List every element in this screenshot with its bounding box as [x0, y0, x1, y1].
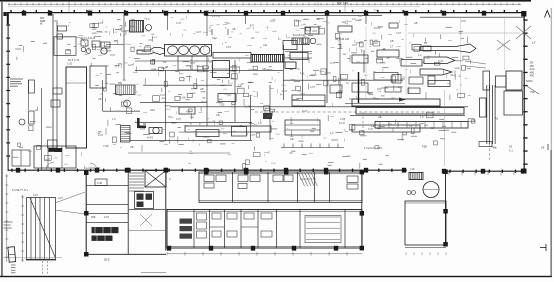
press connector box [496, 76, 507, 87]
svg-text:1.6: 1.6 [300, 71, 304, 75]
upper room 3 desks [273, 175, 293, 182]
left rooms divider [20, 150, 22, 166]
svg-text:AB: AB [118, 27, 122, 31]
svg-text:1.6: 1.6 [368, 91, 372, 95]
scattered small labels [98, 17, 444, 149]
conveyor label flags [211, 29, 213, 35]
left shelf box2 [29, 111, 35, 124]
box row upper right d3 [409, 77, 423, 84]
svg-text:4.07: 4.07 [176, 117, 182, 121]
svg-text:A5: A5 [495, 118, 499, 121]
svg-text:( 26: ( 26 [410, 167, 415, 171]
lower row table grid [305, 216, 341, 243]
machine circle a [81, 47, 86, 52]
svg-text:0.47: 0.47 [438, 59, 444, 63]
svg-text:2.7: 2.7 [390, 47, 394, 49]
svg-text:1.6: 1.6 [250, 23, 254, 27]
svg-text:1.6: 1.6 [150, 49, 154, 53]
strip bottom wall [86, 253, 166, 255]
machine box m5 [232, 127, 247, 137]
room wall vert x102 [102, 80, 104, 111]
svg-text:F.V.SE.TY N.1: F.V.SE.TY N.1 [12, 189, 28, 192]
taper conveyor 2 [424, 57, 455, 64]
scan border bottom edge [0, 276, 552, 277]
lower row dividers [194, 210, 345, 249]
circle right of ladder box [146, 25, 152, 31]
machine box m4 [196, 130, 219, 137]
feeder line down [339, 37, 341, 99]
right wing room [405, 201, 446, 245]
long machine bar B [356, 108, 464, 115]
small text column below north box [11, 265, 16, 273]
svg-text:0.47: 0.47 [330, 61, 336, 65]
grid horizontal y140 [130, 139, 252, 141]
top leader line b [344, 2, 346, 13]
dark corner mark left [137, 118, 140, 128]
top wall stub x167 [167, 15, 169, 30]
cluster vertical feed b [302, 38, 304, 100]
mid machine bar E [185, 126, 271, 132]
long machine bar D [352, 125, 420, 132]
svg-text:MX5: MX5 [88, 10, 93, 12]
svg-text:500/0: 500/0 [526, 79, 533, 83]
lower row outline [167, 210, 362, 249]
grid vertical x165 [165, 70, 167, 141]
svg-text:1.6: 1.6 [352, 17, 356, 21]
margin diagonal leader [525, 85, 539, 94]
east wall under-ticks [449, 172, 514, 175]
stair ladder treads [129, 173, 144, 191]
stair core wall x165 [165, 172, 167, 251]
upper row divider 3 [297, 172, 299, 202]
machine box m1 [218, 94, 236, 102]
dark hatched ladder box top-left [130, 21, 144, 33]
svg-text:4.07: 4.07 [296, 19, 302, 23]
svg-text:1.6: 1.6 [112, 117, 116, 121]
svg-text:··· ····: ··· ···· [264, 30, 270, 32]
svg-text:AB: AB [200, 87, 204, 91]
svg-text:CaI: CaI [263, 43, 267, 47]
svg-text:· ······ ····· ········: · ······ ····· ········ [73, 274, 95, 278]
stair core column top [164, 168, 169, 173]
press leader lines [465, 61, 486, 64]
grid vertical x250 [250, 95, 252, 140]
ramp dim line [21, 195, 24, 262]
bar 17G [385, 87, 401, 92]
box AB right [408, 88, 420, 94]
upper row inner bottom line [199, 200, 362, 202]
upper row divider 4 [314, 172, 316, 202]
svg-text:1.6: 1.6 [238, 83, 242, 87]
svg-text:AB: AB [378, 115, 382, 119]
right wing hatched unit [409, 172, 423, 179]
svg-text:L7: L7 [532, 41, 536, 45]
svg-text:E.T.C: E.T.C [152, 37, 158, 39]
svg-text:c: c [225, 27, 227, 30]
small box c9 [330, 85, 342, 93]
svg-text:0.27: 0.27 [33, 194, 38, 197]
survey cross 2 [497, 40, 510, 50]
svg-text:AB: AB [493, 146, 497, 150]
stair lower cabinets [135, 192, 154, 209]
cluster vertical feed a [283, 45, 285, 100]
left circle D [19, 119, 25, 125]
grid vertical x235 [234, 60, 236, 122]
svg-text:AB: AB [130, 145, 134, 149]
bottom wall column squares [16, 168, 525, 174]
svg-text:4.07: 4.07 [128, 63, 134, 67]
box row upper right d4 [428, 76, 435, 84]
svg-text:18: 18 [541, 146, 545, 150]
right outer wall [523, 13, 525, 172]
svg-text:d: d [209, 26, 211, 30]
svg-text:AB: AB [390, 39, 394, 43]
room box 54-76 [54, 37, 76, 56]
cluster box c2 [305, 27, 319, 34]
corridor side box b [51, 100, 60, 107]
upper row outline [199, 172, 362, 202]
top wall left corner post [7, 13, 9, 25]
pointer arrow right [399, 98, 406, 102]
upper room 1 desks [204, 175, 226, 188]
dark box 77M [285, 62, 296, 69]
svg-text:0.47: 0.47 [282, 89, 288, 93]
corridor side box a [53, 88, 62, 94]
press tail dashed [489, 144, 491, 161]
svg-text:AB M AB LAP: AB M AB LAP [335, 38, 350, 41]
svg-text:1.6: 1.6 [420, 115, 424, 119]
svg-text:A-43: A-43 [147, 136, 153, 140]
room wall mid-left y111 [103, 110, 141, 112]
svg-text:AB: AB [316, 17, 320, 21]
machine circle b [86, 49, 91, 54]
wing left wall columns [84, 171, 89, 257]
cluster mid box c8 inner [292, 100, 325, 102]
margin tick L bottom [540, 247, 546, 249]
svg-text:4.1A 4.0.1 A.7%: 4.1A 4.0.1 A.7% [300, 178, 316, 181]
small circle pair [407, 191, 411, 195]
press rail pair B [492, 85, 494, 144]
svg-text:0.47: 0.47 [302, 109, 308, 113]
right wing east wall squares [443, 170, 448, 247]
margin label A [545, 11, 551, 18]
top leader line [68, 2, 70, 13]
under-tank room dividers [47, 146, 49, 168]
svg-text:Cap: Cap [212, 36, 217, 40]
right wing dim ticks [406, 253, 446, 256]
svg-text:4.07: 4.07 [98, 133, 104, 137]
top wall stub x207 [206, 15, 208, 36]
svg-text:2.07: 2.07 [104, 215, 110, 219]
scan border right edge [551, 150, 552, 277]
svg-text:W.: W. [40, 23, 43, 26]
svg-text:7.02: 7.02 [219, 103, 225, 107]
faint column line x406 [405, 16, 407, 95]
main top wall [7, 12, 526, 14]
conveyor feed flask [137, 48, 165, 55]
machine feed line [106, 44, 124, 46]
strip wall x128 column top [126, 168, 131, 173]
svg-text:450: 450 [530, 74, 535, 78]
svg-text:···· ·····: ···· ····· [264, 27, 271, 29]
svg-text:4.07: 4.07 [250, 133, 256, 137]
wing dimension line below [167, 252, 362, 255]
machine box m2 [179, 107, 195, 114]
door arc bottom wall b [90, 163, 97, 170]
upper right room marks [347, 176, 358, 183]
svg-text:0.47: 0.47 [270, 19, 276, 23]
long machinery rail dashed [255, 111, 440, 113]
circle 12 [124, 100, 131, 107]
machine circle c [101, 48, 107, 54]
left rooms near wall [12, 150, 30, 166]
cluster box c5 [377, 50, 399, 57]
svg-text:1.6: 1.6 [146, 17, 150, 21]
light machine bar [213, 53, 251, 59]
lower row inner wall line [167, 210, 362, 212]
press left block [483, 71, 490, 90]
svg-text:0.47: 0.47 [378, 25, 384, 29]
margin elevation text stack [530, 61, 535, 78]
long machinery rail lower [350, 115, 465, 117]
small boxes top right cluster [389, 23, 398, 28]
upper row divider 2 [267, 172, 269, 202]
band bottom feet line [281, 144, 344, 148]
scan border top edge [0, 0, 531, 2]
strip small box 438 [95, 179, 107, 186]
T-block machine [213, 61, 230, 78]
svg-text:4.0.1.10: 4.0.1.10 [212, 16, 221, 18]
dark cabinet row 1 [92, 227, 119, 233]
main vertical x327 [326, 13, 328, 103]
hatched box BA [292, 38, 309, 45]
strip wall x128 [127, 172, 129, 255]
long machine bar A [352, 99, 440, 106]
tank inner tick [66, 82, 87, 84]
left wall text block [10, 79, 23, 86]
main bottom wall east segment [443, 170, 524, 172]
svg-text:4.07: 4.07 [340, 117, 346, 121]
upper row divider 5 [329, 172, 331, 202]
right wing tank circle [423, 182, 439, 198]
svg-text:0.47: 0.47 [110, 53, 116, 57]
cluster box c2 inner [309, 27, 311, 34]
left outer wall [7, 13, 9, 171]
box row upper right d2 [392, 75, 401, 84]
faint column line x366 [365, 26, 367, 98]
annotation texture field fine [17, 16, 471, 168]
dark hatched machine bar [251, 55, 284, 63]
svg-text:1.6: 1.6 [330, 131, 334, 135]
hall partition y61 [135, 60, 212, 62]
small box AB [479, 142, 492, 147]
faint column line x504 [504, 16, 506, 70]
lower row inner bottom line [167, 245, 362, 247]
bottom-right corner column [522, 169, 527, 174]
wing right wall squares [360, 170, 364, 175]
grid horizontal y102 [140, 101, 207, 103]
svg-text:4.07: 4.07 [310, 85, 316, 89]
press big right box [504, 91, 523, 115]
svg-text:4.07: 4.07 [352, 43, 358, 47]
top leader line c [317, 2, 319, 6]
svg-text:7.09: 7.09 [103, 144, 109, 148]
lower row wc detail 1 [180, 219, 193, 239]
interior corridor wall pair [52, 14, 54, 152]
svg-text:750: 750 [530, 90, 535, 94]
texture row right top [408, 32, 520, 34]
interior column line x41 [41, 88, 43, 170]
dark shelf bar [49, 148, 63, 152]
svg-text:0.47: 0.47 [368, 127, 374, 131]
wing left wall [85, 172, 87, 255]
under band line y153 [128, 152, 230, 154]
svg-text:1.0.1 · 4.1: 1.0.1 · 4.1 [206, 11, 217, 13]
hall partition y70 [135, 69, 283, 71]
svg-text:68: 68 [143, 122, 147, 126]
top wall inner line right [420, 16, 524, 18]
svg-text:6.0: 6.0 [424, 43, 428, 45]
top dimension line [8, 3, 521, 7]
circle at BA box [310, 38, 316, 44]
svg-text:0.47: 0.47 [176, 21, 182, 25]
door arc at room [76, 37, 86, 47]
faint column line x444 [444, 90, 446, 166]
svg-text:AB: AB [216, 113, 220, 117]
svg-text:1.05: 1.05 [245, 105, 251, 109]
svg-text:d.27: d.27 [58, 197, 63, 200]
taper conveyor 3 [420, 69, 452, 75]
svg-text:··········: ·········· [408, 33, 416, 35]
svg-text:1.04: 1.04 [180, 96, 186, 100]
cluster box c7 [401, 60, 422, 67]
svg-text:C.I: C.I [431, 127, 435, 130]
top wall column squares [22, 11, 486, 16]
machine box m3 [149, 128, 162, 134]
scan border left edge [1, 2, 2, 277]
upper hatched room [299, 173, 318, 186]
cluster box c4 [290, 53, 308, 60]
vertical stub x366 [365, 13, 367, 24]
room block 411 [178, 56, 207, 70]
top wall stub x245 [245, 14, 247, 24]
press side box [480, 98, 487, 117]
right wing room bottom double [405, 246, 446, 248]
grid vertical x270 [269, 85, 271, 140]
door arc bottom wall a [46, 162, 54, 170]
small box 21 [58, 26, 67, 31]
core hatch small [140, 214, 152, 226]
svg-text:AB: AB [98, 97, 102, 101]
lower row partitions small [210, 213, 273, 237]
cluster box c3 [338, 26, 352, 32]
dark label block right [263, 113, 272, 119]
svg-text:208: 208 [91, 215, 96, 219]
left mid shelf boxes [29, 80, 35, 93]
wall stub y51 left [285, 51, 312, 53]
box row upper right d1 [374, 73, 398, 81]
room wall y37 [54, 36, 76, 38]
right wing east wall [445, 172, 447, 247]
svg-text:MX 140: MX 140 [337, 2, 348, 6]
hatched bar tail line [284, 57, 312, 59]
tank circle inner line [423, 189, 439, 191]
top wall left end pilaster [3, 12, 6, 16]
vertical x364 upper [363, 50, 365, 72]
top-right corner column [521, 11, 526, 17]
svg-text:F.a 3 5.01.4/5: F.a 3 5.01.4/5 [84, 166, 100, 170]
ramp structure verticals [27, 198, 56, 260]
svg-text:F28: F28 [422, 145, 427, 149]
corridor side box c [48, 140, 58, 148]
main bottom wall west segment [8, 169, 407, 171]
roller conveyor 545 [165, 45, 212, 57]
svg-text:2.: 2. [169, 177, 172, 181]
annotation texture field [12, 19, 475, 169]
svg-text:20.5: 20.5 [104, 258, 110, 262]
hatched box 650 [116, 85, 136, 95]
taper conveyor 1 [420, 44, 476, 53]
dashed vertical x363 [362, 112, 364, 135]
svg-text:0.47: 0.47 [140, 127, 146, 131]
left margin small text rows [4, 222, 13, 228]
svg-text:B.A AB UG: B.A AB UG [293, 34, 305, 37]
strip rooms dividers [86, 184, 128, 186]
press rail pair A [486, 85, 488, 144]
svg-text:·······: ······· [68, 79, 74, 82]
cluster box c6 [352, 55, 368, 63]
ramp leader lines [55, 192, 85, 203]
small box c10 [352, 83, 368, 92]
svg-text:AB: AB [414, 21, 418, 25]
large tank room 623 [66, 67, 87, 148]
bottom tick marks [141, 272, 166, 274]
scan border right edge upper faint [550, 8, 553, 150]
upper room 2 desks [238, 175, 260, 189]
left margin dim line [5, 174, 8, 262]
interior column line x28 [27, 80, 29, 110]
grid vertical x207 [206, 70, 208, 126]
ramp diagonal [30, 198, 56, 258]
svg-text:17G: 17G [377, 89, 382, 91]
right wall survey cross [516, 26, 531, 39]
grid horizontal y122 [135, 121, 252, 123]
centre room labels [143, 65, 251, 140]
cluster mid box c8 [292, 95, 325, 106]
long machinery rail upper [345, 103, 405, 105]
top wall inner line left [205, 14, 382, 16]
svg-text:1.A: 1.A [409, 125, 413, 128]
svg-text:4.07: 4.07 [98, 21, 104, 25]
svg-text:AB: AB [232, 27, 236, 31]
core mid landing lines [129, 208, 165, 210]
svg-text:C.91: C.91 [67, 63, 73, 66]
pump circle P [153, 127, 159, 133]
svg-text:1.6: 1.6 [418, 53, 422, 57]
long machine bar C hatched [375, 122, 468, 129]
stair X box [145, 171, 166, 188]
lower row wc detail 2 [197, 213, 207, 238]
svg-text:62.4 C.74: 62.4 C.74 [68, 58, 80, 62]
ground line left [2, 257, 62, 259]
press head box [506, 71, 522, 90]
bottom wall minor ticks [11, 169, 516, 173]
taper conveyor 4 [428, 81, 450, 87]
dark cabinet row 2 [92, 236, 113, 241]
feeder line across y80 [283, 79, 403, 81]
lower row bottom columns [167, 246, 338, 251]
upper row inner wall line [199, 173, 362, 175]
